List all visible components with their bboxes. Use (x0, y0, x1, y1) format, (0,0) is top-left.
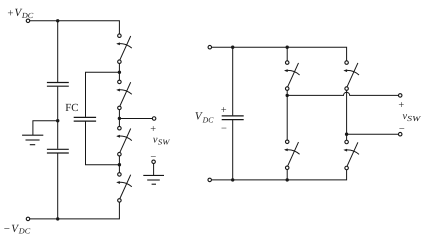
svg-text:SW: SW (407, 114, 421, 123)
wire DC-link upper (57, 21, 59, 82)
switch Q3 (343, 61, 359, 91)
capacitor FC (74, 117, 96, 121)
wire S2-S3 (118, 110, 120, 127)
switch S3 (116, 126, 132, 156)
label + (right output) (398, 100, 404, 111)
switch Q2 (284, 140, 300, 170)
switch S2 (116, 80, 132, 110)
node Vdc top (231, 46, 234, 49)
svg-text:+: + (398, 100, 404, 111)
source capacitor VDC (222, 116, 244, 120)
switch Q1 (284, 61, 300, 91)
svg-text:DC: DC (202, 116, 215, 125)
label + (Vdc) (221, 105, 227, 116)
label vsw (left output) (153, 135, 170, 147)
node leg1 midpoint (286, 94, 289, 97)
svg-text:DC: DC (21, 11, 34, 20)
label vsw (right output) (403, 111, 422, 123)
label - (Vdc) (221, 123, 227, 134)
wire leg2 middle (346, 90, 348, 140)
terminal vsw- (left) (152, 160, 156, 164)
wire Vdc upper (232, 47, 234, 115)
wire output - (right) (347, 133, 399, 135)
terminal vsw- (right) (398, 132, 402, 136)
wire FC top branch (86, 72, 120, 117)
svg-text:DC: DC (18, 227, 31, 236)
label - (left output) (150, 152, 156, 163)
wire top rail (right circuit) (212, 47, 347, 61)
wire top rail (30, 21, 120, 34)
wire leg1 upper stub (286, 47, 288, 61)
wire FC bottom branch (86, 122, 120, 165)
ground left (22, 135, 43, 145)
wire DC-link middle (57, 87, 59, 149)
wire leg1 lower stub (286, 170, 288, 180)
capacitor C2 (47, 149, 69, 153)
node top-left junction (56, 19, 59, 22)
wire output left (119, 118, 152, 120)
wire output + with crossover hop (287, 92, 398, 95)
node A (FC top) (118, 71, 121, 74)
terminal top (right circuit) (208, 45, 212, 49)
switch Q4 (343, 140, 359, 170)
label -VDC (4, 223, 31, 236)
label + (left output) (150, 124, 156, 135)
svg-text:−: − (221, 123, 227, 134)
wire ground branch (33, 121, 58, 136)
node leg2 midpoint (345, 133, 348, 136)
node B (FC bottom) (118, 163, 121, 166)
label +VDC (7, 7, 34, 20)
capacitor C1 (47, 83, 69, 87)
node leg1 bottom (286, 178, 289, 181)
label VDC (right circuit) (195, 110, 214, 124)
wire Vdc lower (232, 120, 234, 180)
wire bottom rail (right circuit) (212, 170, 347, 180)
switch S4 (116, 173, 132, 203)
node bottom-left junction (56, 217, 59, 220)
node Vdc bottom (231, 178, 234, 181)
wire leg1 middle (286, 90, 288, 140)
wire bottom rail (30, 202, 120, 219)
node output (left) (118, 117, 121, 120)
wire DC-link lower (57, 153, 59, 219)
svg-text:SW: SW (158, 138, 170, 147)
node DC midpoint (56, 119, 59, 122)
terminal vsw+ (right) (398, 94, 402, 98)
terminal -VDC (26, 217, 30, 221)
ground output (left) (143, 175, 164, 184)
svg-text:+: + (7, 7, 13, 19)
wire output ground stem (153, 164, 155, 176)
switch S1 (116, 34, 132, 64)
wire S3-S4 (118, 156, 120, 173)
label - (right output) (399, 124, 405, 135)
svg-text:+: + (221, 105, 227, 116)
wire S1-S2 (118, 63, 120, 80)
label FC (65, 102, 78, 114)
svg-text:−: − (4, 223, 10, 235)
terminal vsw+ (left) (152, 117, 156, 121)
terminal +VDC (26, 19, 30, 23)
node leg1 top (286, 46, 289, 49)
svg-text:FC: FC (65, 102, 78, 114)
terminal bottom (right circuit) (208, 178, 212, 182)
svg-text:+: + (150, 124, 156, 135)
